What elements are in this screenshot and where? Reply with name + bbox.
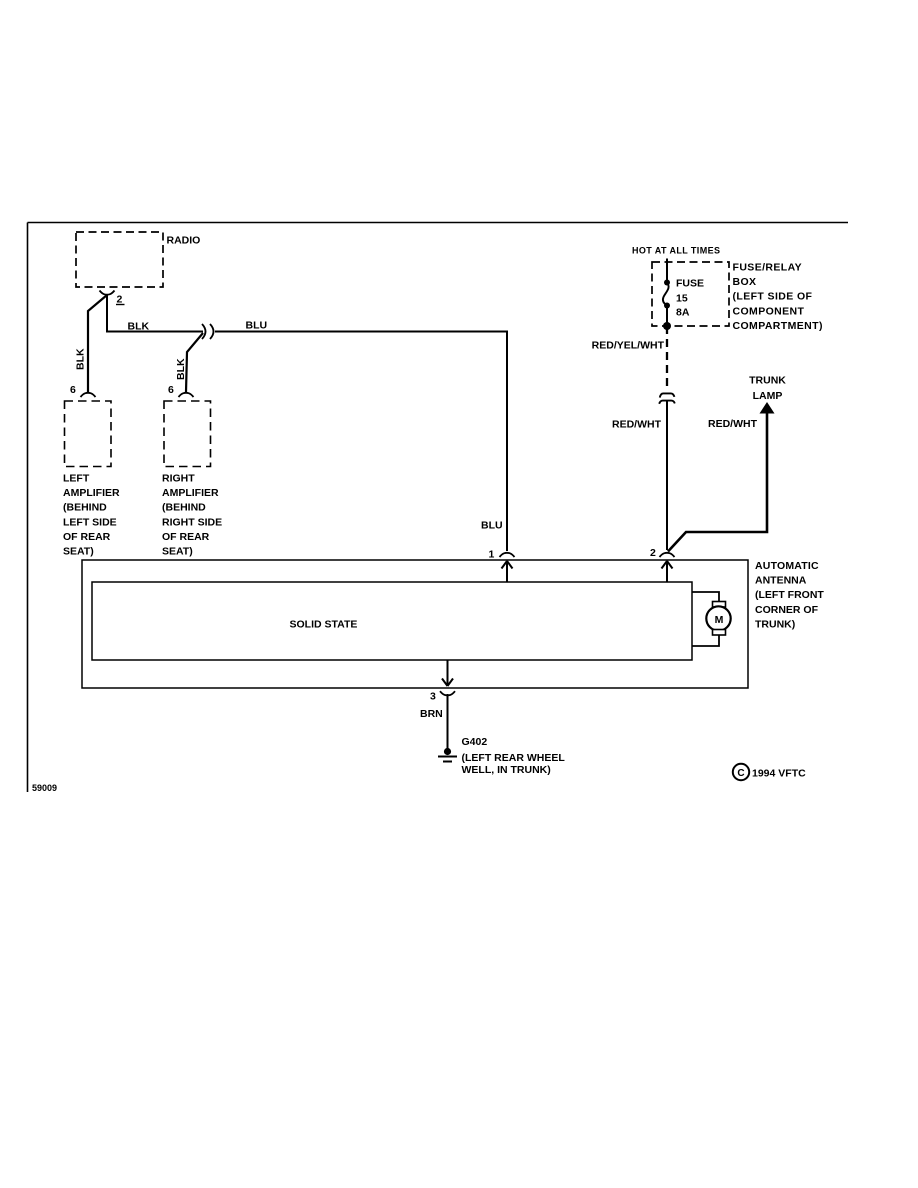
wire BLK radio pin 2 to left amplifier pin 6 [88,295,107,392]
svg-text:6: 6 [70,384,76,396]
wire BLK right amplifier pin 6 to inline connector [186,333,203,392]
wire BRN antenna pin 3 to ground [442,660,453,748]
wire BLU inline connector to antenna pin 1 [215,332,507,552]
motor M [692,592,731,646]
inline connector (RED/YEL/WHT to RED/WHT) [659,393,675,403]
label RED/YEL/WHT [592,340,665,352]
wire RED/YEL/WHT fuse box to inline connector (dashed) [666,326,668,388]
svg-text:BLU: BLU [481,520,503,532]
svg-text:2: 2 [117,294,123,306]
svg-text:3: 3 [430,691,436,703]
svg-text:SEAT): SEAT) [162,546,193,558]
label 59009 [32,783,57,793]
junction dot at fuse box bottom [663,322,671,330]
svg-text:BLK: BLK [175,358,187,380]
svg-text:15: 15 [676,293,688,305]
label RED/WHT (trunk lamp wire) [708,418,758,430]
wire from box top to fuse [666,259,668,282]
svg-text:(LEFT REAR WHEEL: (LEFT REAR WHEEL [462,752,566,764]
svg-text:OF REAR: OF REAR [63,531,111,543]
svg-text:6: 6 [168,384,174,396]
svg-text:TRUNK): TRUNK) [755,618,795,630]
wire RED/WHT inline connector to antenna pin 2 [666,401,668,550]
label BLK (right amplifier wire) [175,358,187,380]
svg-text:FUSE/RELAY: FUSE/RELAY [733,262,803,274]
svg-text:RIGHT SIDE: RIGHT SIDE [162,516,222,528]
svg-text:(LEFT SIDE OF: (LEFT SIDE OF [733,291,813,303]
svg-text:COMPONENT: COMPONENT [733,305,805,317]
svg-text:1: 1 [489,549,495,561]
svg-text:BLK: BLK [75,348,87,370]
svg-text:SEAT): SEAT) [63,546,94,558]
ground G402 [438,736,565,776]
svg-text:SOLID STATE: SOLID STATE [290,619,358,631]
svg-text:2: 2 [650,547,656,559]
wire fuse to junction [666,306,668,327]
arrow into antenna at pin 1 [502,561,513,582]
svg-text:TRUNK: TRUNK [749,375,786,387]
svg-text:BRN: BRN [420,708,443,720]
svg-text:BOX: BOX [733,276,757,288]
radio [76,232,200,287]
pin 1 (antenna) [489,549,515,561]
svg-text:C: C [737,768,744,779]
label RED/WHT [612,419,662,431]
svg-text:(BEHIND: (BEHIND [162,502,206,514]
svg-text:(BEHIND: (BEHIND [63,502,107,514]
right amplifier [162,401,222,558]
svg-text:RED/WHT: RED/WHT [708,418,758,430]
svg-text:AMPLIFIER: AMPLIFIER [162,487,219,499]
inline connector (BLK to BLU splice) [202,324,214,339]
svg-text:ANTENNA: ANTENNA [755,575,807,587]
svg-text:59009: 59009 [32,783,57,793]
svg-text:8A: 8A [676,307,690,319]
pin 2 (antenna) [650,547,675,559]
wire BLK radio pin 2 to inline connector [107,295,203,332]
trunk lamp [749,375,786,414]
svg-text:RED/YEL/WHT: RED/YEL/WHT [592,340,665,352]
fuse/relay box [652,262,823,332]
svg-text:AMPLIFIER: AMPLIFIER [63,487,120,499]
svg-text:OF REAR: OF REAR [162,531,210,543]
svg-text:M: M [715,614,724,626]
svg-text:BLK: BLK [128,321,150,333]
arrow into antenna at pin 2 [662,561,673,582]
svg-text:WELL, IN TRUNK): WELL, IN TRUNK) [462,764,551,776]
pin 6 (right amplifier) [168,384,194,397]
svg-text:LAMP: LAMP [753,390,783,402]
pin 3 (antenna) [430,691,455,703]
svg-text:AUTOMATIC: AUTOMATIC [755,560,819,572]
solid state module [92,582,692,660]
svg-text:COMPARTMENT): COMPARTMENT) [733,320,823,332]
svg-text:RED/WHT: RED/WHT [612,419,662,431]
fuse 15 8A [663,278,704,319]
svg-text:LEFT: LEFT [63,473,90,485]
label BRN [420,708,443,720]
label BLK [128,321,150,333]
label BLU (at antenna pin 1) [481,520,503,532]
svg-text:BLU: BLU [246,320,268,332]
svg-text:RIGHT: RIGHT [162,473,195,485]
svg-text:LEFT SIDE: LEFT SIDE [63,516,117,528]
svg-text:HOT AT ALL TIMES: HOT AT ALL TIMES [632,246,720,256]
svg-text:CORNER OF: CORNER OF [755,604,819,616]
svg-text:1994 VFTC: 1994 VFTC [752,768,806,780]
svg-text:RADIO: RADIO [167,235,201,247]
svg-text:FUSE: FUSE [676,278,704,290]
left amplifier [63,401,120,558]
svg-text:(LEFT FRONT: (LEFT FRONT [755,589,824,601]
pin 6 (left amplifier) [70,384,96,397]
pin 2 (radio) [100,291,125,306]
label BLK (left amplifier wire) [75,348,87,370]
wire RED/WHT trunk lamp to antenna pin 2 [668,413,767,552]
svg-text:G402: G402 [462,736,488,748]
label copyright 1994 VFTC [733,764,806,780]
automatic antenna assembly [82,560,824,688]
frame (unlabeled border) [28,223,849,793]
label HOT AT ALL TIMES [632,246,720,256]
label BLU [246,320,268,332]
